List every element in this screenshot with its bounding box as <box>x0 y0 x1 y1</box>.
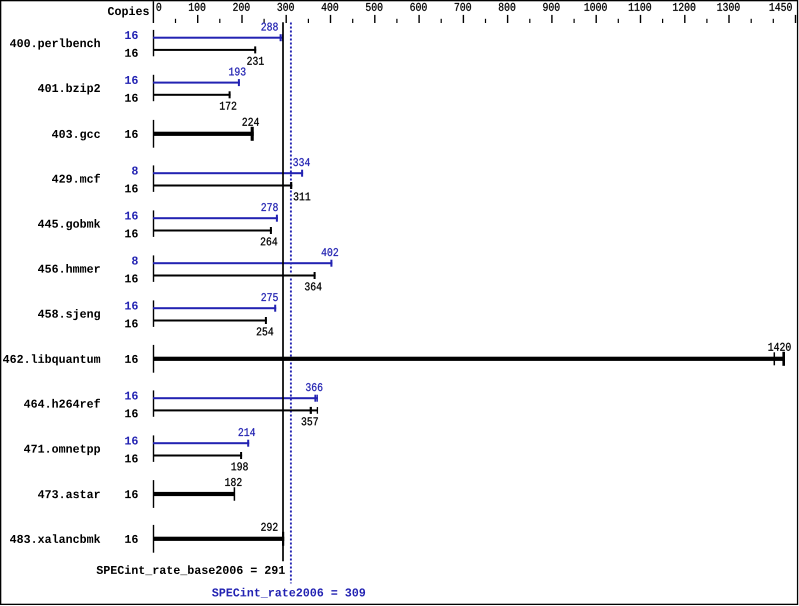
axis labels <box>156 3 791 11</box>
base bar end caps <box>314 272 316 279</box>
base value label 198 <box>231 462 247 470</box>
name label 473.astar <box>38 490 100 498</box>
start cap <box>153 255 155 282</box>
base bar 311 <box>153 185 292 187</box>
base copies 16 <box>125 130 138 138</box>
peak bar 193 <box>153 82 240 84</box>
base value label 311 <box>294 192 311 200</box>
name label 445.gobmk <box>38 219 100 230</box>
peak value label 334 <box>293 158 310 166</box>
Copies header <box>108 6 149 17</box>
base bar 1420 <box>153 357 785 361</box>
name label 464.h264ref <box>24 399 100 408</box>
peak copies 16 <box>125 76 138 84</box>
benchmark group 462.libquantum <box>3 343 791 373</box>
start cap <box>153 30 155 56</box>
base bar 292 <box>153 537 284 541</box>
peak value label 193 <box>229 68 245 76</box>
base bar 357 <box>153 409 318 411</box>
peak bar end caps <box>301 170 303 177</box>
name label 471.omnetpp <box>24 445 100 455</box>
peak value label 288 <box>261 23 277 31</box>
base copies 16 <box>125 184 138 192</box>
start cap <box>153 210 155 237</box>
summary peak mean text <box>212 588 365 598</box>
base bar end caps <box>282 532 284 546</box>
benchmark group 458.sjeng <box>38 293 278 335</box>
benchmark group 456.hmmer <box>38 248 338 290</box>
peak bar end caps <box>314 395 318 402</box>
base value label 264 <box>261 237 277 245</box>
peak value label 275 <box>261 293 277 301</box>
benchmark group 483.xalancbmk <box>10 523 284 553</box>
base bar end caps <box>265 317 267 324</box>
base copies 16 <box>125 274 138 282</box>
peak bar 402 <box>153 262 332 264</box>
solid mean line SPECint_rate_base2006 291 <box>282 22 284 561</box>
dotted mean line SPECint_rate2006 309 <box>290 23 292 584</box>
base bar end caps <box>254 46 256 53</box>
benchmark group 400.perlbench <box>10 23 283 65</box>
start cap <box>153 435 155 462</box>
start cap <box>153 480 155 508</box>
start cap <box>153 345 155 373</box>
benchmark group 471.omnetpp <box>24 428 255 470</box>
name label 462.libquantum <box>3 354 100 365</box>
start cap <box>153 120 155 148</box>
peak value label 366 <box>306 383 322 391</box>
name label 458.sjeng <box>38 309 100 320</box>
peak bar end caps <box>238 79 240 86</box>
base bar end caps <box>774 352 785 366</box>
peak bar end caps <box>280 34 284 41</box>
benchmark group 403.gcc <box>52 118 259 148</box>
base copies 16 <box>125 319 138 327</box>
start cap <box>153 525 155 553</box>
base value label 254 <box>257 327 273 335</box>
peak bar 288 <box>153 37 283 39</box>
peak copies 16 <box>125 302 138 310</box>
peak bar 366 <box>153 397 318 399</box>
base bar 254 <box>153 320 267 322</box>
peak bar 214 <box>153 442 249 444</box>
base copies 16 <box>125 94 138 102</box>
benchmark group 473.astar <box>38 478 242 508</box>
base value label 1420 <box>768 343 790 351</box>
peak copies 16 <box>125 437 138 445</box>
name label 403.gcc <box>52 130 100 141</box>
x axis zero line <box>152 1 154 23</box>
base copies 16 <box>125 490 138 498</box>
axis ticks <box>176 15 796 23</box>
base value label 182 <box>225 478 241 486</box>
peak bar end caps <box>274 305 276 312</box>
benchmark group 401.bzip2 <box>38 68 246 110</box>
base copies 16 <box>125 409 138 417</box>
peak copies 16 <box>125 212 138 220</box>
base bar end caps <box>229 91 231 98</box>
peak value label 278 <box>261 203 277 211</box>
peak bar 334 <box>153 172 303 174</box>
base bar end caps <box>240 452 242 459</box>
peak bar end caps <box>330 260 332 267</box>
base bar end caps <box>251 127 254 141</box>
base bar end caps <box>270 227 272 234</box>
base bar end caps <box>234 487 236 501</box>
start cap <box>153 300 155 327</box>
benchmark group 445.gobmk <box>38 203 278 245</box>
benchmark group 464.h264ref <box>24 383 322 425</box>
base bar end caps <box>290 182 292 189</box>
base copies 16 <box>125 355 138 363</box>
benchmark group 429.mcf <box>52 158 310 200</box>
name label 456.hmmer <box>38 264 100 273</box>
peak copies 8 <box>132 167 138 175</box>
peak bar 278 <box>153 217 278 219</box>
start cap <box>153 390 155 416</box>
peak copies 16 <box>125 31 138 39</box>
name label 401.bzip2 <box>38 83 100 94</box>
peak bar 275 <box>153 307 276 309</box>
base bar 182 <box>153 492 235 496</box>
peak copies 8 <box>132 257 138 265</box>
base copies 16 <box>125 229 138 237</box>
base value label 364 <box>305 282 322 290</box>
summary base mean text <box>97 565 285 575</box>
peak value label 402 <box>322 248 338 256</box>
base value label 292 <box>261 523 277 531</box>
base bar 224 <box>153 132 254 136</box>
base value label 357 <box>302 417 318 425</box>
base bar 364 <box>153 275 316 277</box>
base copies 16 <box>125 49 138 57</box>
name label 429.mcf <box>52 174 100 183</box>
base bar 172 <box>153 94 231 96</box>
base copies 16 <box>125 535 138 543</box>
peak value label 214 <box>239 428 255 436</box>
peak copies 16 <box>125 392 138 400</box>
base bar 231 <box>153 49 256 51</box>
peak bar end caps <box>247 440 249 447</box>
name label 483.xalancbmk <box>10 534 100 543</box>
base value label 231 <box>247 57 263 65</box>
base copies 16 <box>125 454 138 462</box>
name label 400.perlbench <box>10 38 100 49</box>
peak bar end caps <box>276 215 278 222</box>
start cap <box>153 75 155 101</box>
base value label 172 <box>220 102 236 110</box>
base bar 198 <box>153 455 242 457</box>
base value label 224 <box>242 118 258 126</box>
base bar end caps <box>310 407 318 414</box>
start cap <box>153 165 155 192</box>
base bar 264 <box>153 230 272 232</box>
